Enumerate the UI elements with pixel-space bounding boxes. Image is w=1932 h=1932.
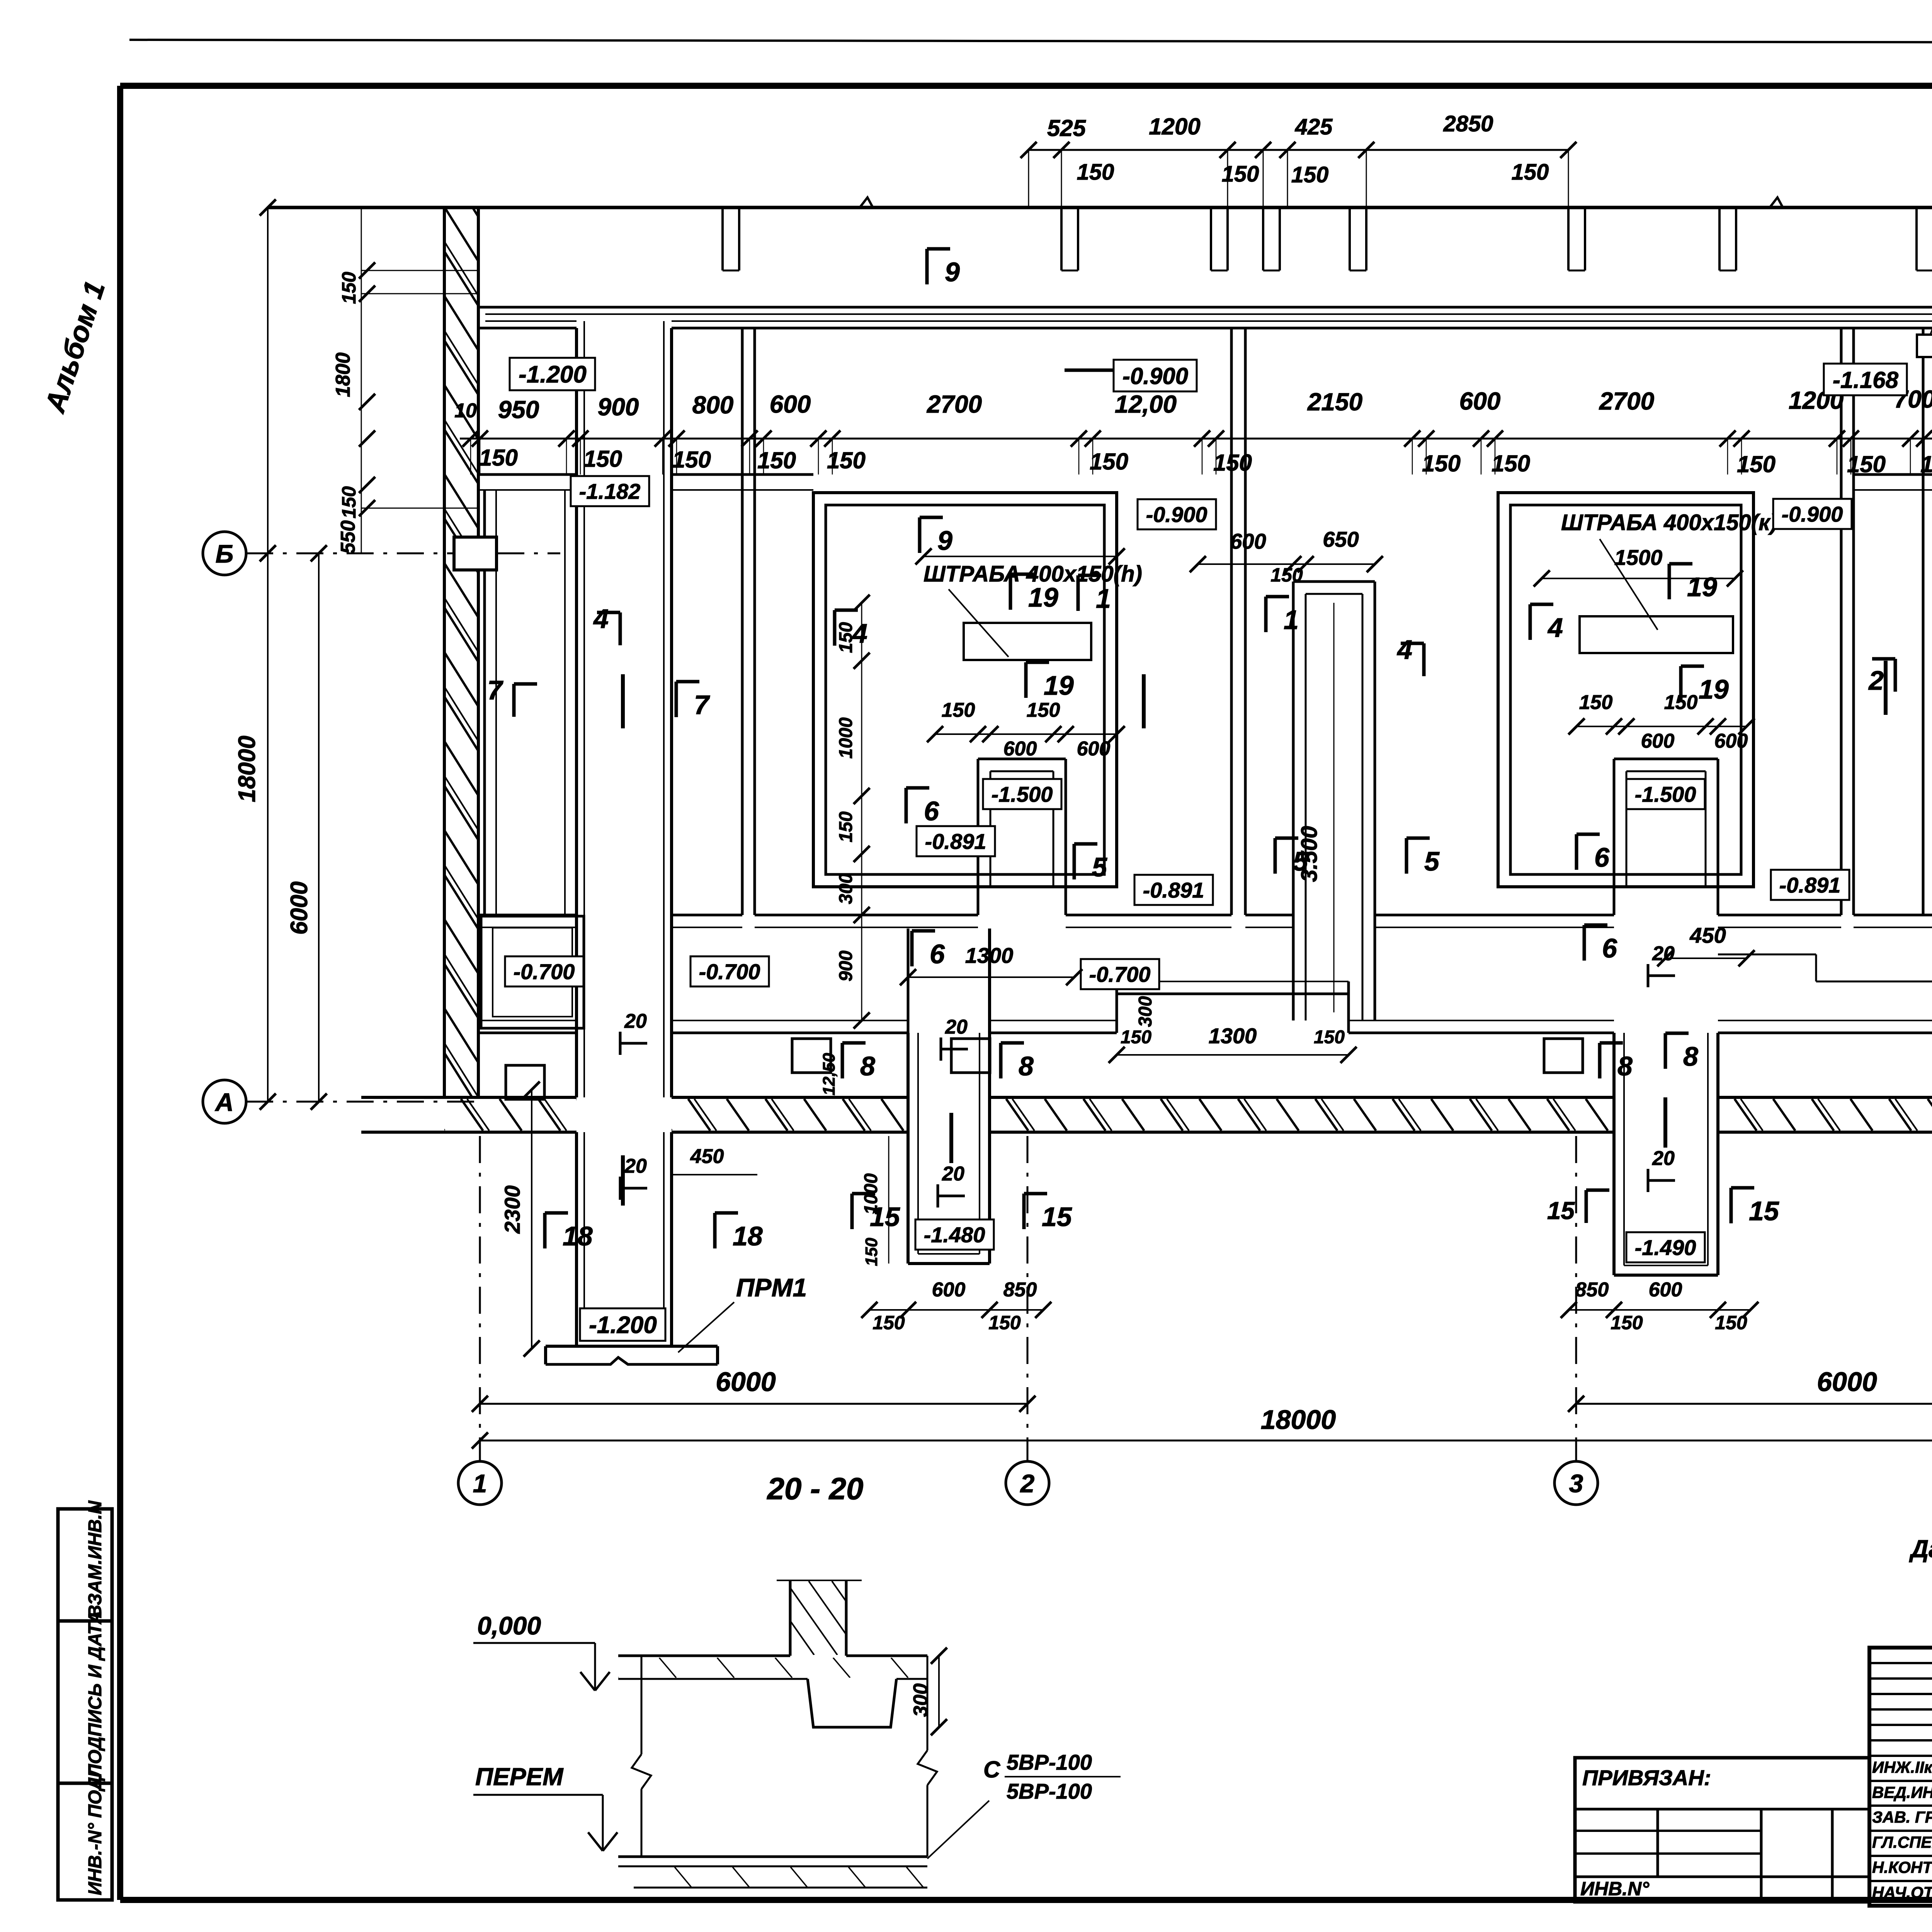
- step right of pit: [1718, 954, 1816, 956]
- svg-text:2300: 2300: [500, 1185, 524, 1234]
- svg-text:150: 150: [1291, 162, 1329, 187]
- svg-text:150: 150: [338, 486, 360, 519]
- svg-text:450: 450: [1689, 923, 1726, 947]
- -1.500 stub channel right: [1613, 759, 1616, 887]
- svg-text:150: 150: [1611, 1312, 1643, 1333]
- svg-text:1500: 1500: [1614, 545, 1663, 570]
- svg-text:150: 150: [836, 622, 856, 653]
- svg-text:2150: 2150: [1307, 388, 1362, 416]
- svg-text:150: 150: [988, 1312, 1021, 1333]
- svg-text:300: 300: [836, 873, 856, 904]
- svg-text:5ВР-100: 5ВР-100: [1007, 1750, 1092, 1774]
- svg-text:20: 20: [942, 1163, 964, 1185]
- svg-text:15: 15: [1547, 1197, 1575, 1225]
- dim 2300: [531, 1090, 532, 1349]
- signature rows: [1869, 1755, 1932, 1757]
- svg-text:2: 2: [1020, 1469, 1035, 1498]
- svg-text:ПРМ1: ПРМ1: [736, 1273, 807, 1302]
- svg-text:6000: 6000: [1817, 1367, 1877, 1397]
- svg-text:150: 150: [1027, 699, 1060, 721]
- vertical dim chain below floor left: [888, 1136, 889, 1264]
- dim 150/600/600 right box: [1577, 726, 1747, 727]
- reinforcement dashes in lanes: [621, 674, 625, 728]
- left bay vertical channel lines: [483, 490, 486, 916]
- short bold mark near top center: [1065, 369, 1138, 372]
- svg-text:-1.168: -1.168: [1833, 367, 1899, 393]
- svg-text:300: 300: [910, 1684, 932, 1717]
- svg-text:19: 19: [1028, 582, 1058, 612]
- axis 1 line: [479, 1136, 481, 1461]
- axis B stub into wall: [454, 537, 497, 570]
- svg-text:Н.КОНТР: Н.КОНТР: [1872, 1858, 1932, 1876]
- small grid rows: [1869, 1662, 1932, 1664]
- svg-text:19: 19: [1699, 674, 1729, 704]
- svg-text:ГЛ.СПЕЦ: ГЛ.СПЕЦ: [1872, 1833, 1932, 1851]
- svg-text:150: 150: [1270, 564, 1303, 586]
- svg-text:600: 600: [1714, 730, 1748, 752]
- 20 section marks: [620, 1042, 647, 1045]
- svg-text:12,00: 12,00: [1115, 390, 1177, 418]
- left wall hatched: [444, 207, 478, 1097]
- svg-text:150: 150: [1512, 160, 1549, 185]
- svg-text:-0.700: -0.700: [514, 959, 575, 984]
- wall pair p8: [1840, 328, 1843, 915]
- svg-text:9: 9: [937, 526, 952, 556]
- svg-text:450: 450: [690, 1145, 724, 1168]
- svg-text:900: 900: [598, 393, 639, 421]
- svg-text:ИНЖ.IIк: ИНЖ.IIк: [1872, 1758, 1932, 1776]
- svg-text:9: 9: [945, 257, 960, 287]
- svg-text:4: 4: [1547, 612, 1563, 643]
- dim 300: [938, 1656, 940, 1727]
- svg-text:-0.900: -0.900: [1122, 363, 1188, 389]
- svg-text:950: 950: [498, 396, 539, 423]
- svg-text:150: 150: [1121, 1027, 1151, 1048]
- left room box: [813, 493, 1117, 887]
- svg-text:15: 15: [1749, 1196, 1779, 1226]
- svg-text:-0.891: -0.891: [925, 829, 986, 854]
- svg-text:1300: 1300: [965, 943, 1014, 968]
- svg-text:150: 150: [872, 1312, 905, 1333]
- svg-text:ПОДПИСЬ И ДАТА: ПОДПИСЬ И ДАТА: [85, 1611, 105, 1777]
- axis circle 3: [1554, 1461, 1598, 1505]
- svg-text:8: 8: [1019, 1051, 1034, 1081]
- sheet frame (thick): [120, 83, 1932, 89]
- svg-text:600: 600: [1459, 387, 1501, 415]
- svg-text:ИНВ.N°: ИНВ.N°: [1580, 1878, 1650, 1900]
- dim 1500 left: [923, 556, 1117, 557]
- svg-text:А: А: [214, 1088, 234, 1116]
- svg-text:1200: 1200: [1149, 114, 1200, 139]
- dim 600 650 above center: [1198, 563, 1376, 565]
- svg-text:18: 18: [733, 1221, 763, 1251]
- svg-text:-0.891: -0.891: [1779, 873, 1841, 897]
- svg-text:1800: 1800: [332, 352, 354, 397]
- wall pair p9 (drop from top channel): [1922, 328, 1925, 915]
- vertical dim chain left box: [854, 595, 870, 611]
- svg-text:7: 7: [694, 690, 710, 720]
- top dim row 525/1200/425/2850: [1029, 149, 1568, 151]
- top wall openings: [1060, 207, 1063, 270]
- detail key trapezoid: [808, 1679, 896, 1727]
- svg-text:525: 525: [1047, 115, 1087, 141]
- svg-text:ПЕРЕМ: ПЕРЕМ: [475, 1763, 564, 1791]
- svg-text:20: 20: [1652, 1147, 1675, 1170]
- dim 1500 right box: [1542, 578, 1735, 579]
- svg-text:1: 1: [473, 1469, 487, 1498]
- svg-text:4: 4: [593, 604, 609, 634]
- center tall channel: [1292, 582, 1295, 1020]
- post pads: [506, 1065, 544, 1099]
- svg-text:900: 900: [836, 951, 856, 981]
- svg-text:18000: 18000: [1261, 1405, 1336, 1435]
- svg-text:-1.480: -1.480: [924, 1223, 985, 1247]
- svg-text:150: 150: [836, 811, 856, 842]
- svg-text:5ВР-100: 5ВР-100: [1007, 1779, 1092, 1803]
- dim 1300 floor: [1117, 1054, 1349, 1056]
- svg-text:600: 600: [1230, 529, 1266, 553]
- svg-text:-1.500: -1.500: [1635, 782, 1696, 806]
- svg-text:2850: 2850: [1443, 111, 1493, 136]
- bottom channel bottom edge: [478, 1020, 577, 1021]
- svg-text:4: 4: [1396, 634, 1412, 665]
- svg-text:-0.700: -0.700: [1089, 962, 1151, 986]
- dim 6000 axis3-4: [1576, 1403, 1932, 1405]
- svg-text:150: 150: [1077, 160, 1114, 185]
- svg-text:ШТРАБА 400х150(к): ШТРАБА 400х150(к): [1561, 510, 1777, 535]
- svg-text:150: 150: [583, 446, 622, 472]
- svg-text:150: 150: [1314, 1027, 1345, 1048]
- svg-text:6: 6: [1594, 842, 1610, 872]
- svg-text:18000: 18000: [234, 736, 260, 802]
- right room box: [1498, 493, 1753, 887]
- section marks: [925, 249, 929, 284]
- svg-text:150: 150: [672, 447, 711, 473]
- ground line zigzags: [860, 197, 873, 207]
- svg-text:10: 10: [454, 400, 477, 422]
- page thin border top: [129, 40, 1932, 43]
- svg-text:6: 6: [930, 939, 945, 969]
- detail bottom slab: [618, 1855, 927, 1858]
- svg-text:425: 425: [1295, 114, 1333, 139]
- svg-text:550: 550: [337, 520, 359, 554]
- svg-text:20: 20: [945, 1016, 968, 1038]
- axis 2 line: [1027, 1136, 1029, 1461]
- level labels: [510, 358, 595, 390]
- svg-text:20: 20: [624, 1010, 647, 1032]
- svg-text:150: 150: [1715, 1312, 1747, 1333]
- dim 450 right: [1665, 957, 1747, 959]
- svg-text:19: 19: [1687, 572, 1717, 602]
- svg-text:6: 6: [924, 796, 939, 826]
- svg-text:150: 150: [338, 272, 360, 304]
- mid narrowed segment step: [1117, 981, 1349, 982]
- svg-text:-1.200: -1.200: [589, 1312, 657, 1338]
- main dim row across plan: [460, 438, 1932, 440]
- detail slab: [618, 1655, 790, 1657]
- bottom channel top edge: [478, 914, 577, 917]
- axis circle 2: [1006, 1461, 1049, 1505]
- svg-text:С: С: [983, 1757, 1001, 1782]
- label -1.200 pit: [580, 1308, 665, 1341]
- svg-text:600: 600: [932, 1279, 966, 1301]
- svg-text:20 - 20: 20 - 20: [766, 1471, 863, 1506]
- svg-text:ВЗАМ.ИНВ.N: ВЗАМ.ИНВ.N: [85, 1500, 105, 1618]
- title block outer: [1869, 1648, 1932, 1906]
- privyazan block: [1575, 1758, 1869, 1902]
- plan top ground line: [268, 206, 1932, 209]
- svg-text:5: 5: [1293, 846, 1308, 876]
- svg-text:600: 600: [1649, 1279, 1682, 1301]
- svg-text:600: 600: [1641, 730, 1675, 752]
- svg-text:800: 800: [692, 391, 734, 419]
- svg-text:-0.900: -0.900: [1782, 502, 1843, 526]
- svg-text:650: 650: [1323, 527, 1359, 551]
- dim 18000: [480, 1440, 1932, 1442]
- pit bottom dims left: [869, 1309, 1043, 1311]
- svg-text:150: 150: [942, 699, 975, 721]
- left vertical dims: [267, 207, 269, 1102]
- axis circle 1: [458, 1461, 502, 1505]
- detail vertical edges w/ break: [641, 1656, 643, 1754]
- second channel run left: [478, 473, 577, 476]
- svg-text:-1.500: -1.500: [992, 782, 1053, 806]
- svg-text:2: 2: [1868, 665, 1884, 696]
- svg-text:-1.182: -1.182: [579, 479, 641, 503]
- dim 150/600/600 left box: [935, 733, 1117, 735]
- wall pair p1: [741, 328, 744, 915]
- svg-text:НАЧ.ОТД.: НАЧ.ОТД.: [1872, 1883, 1932, 1901]
- svg-text:150: 150: [1579, 691, 1613, 714]
- svg-text:ВЕД.ИНЖ: ВЕД.ИНЖ: [1872, 1783, 1932, 1801]
- right second run: [1854, 473, 1932, 476]
- svg-text:20: 20: [624, 1155, 647, 1177]
- svg-text:-1.490: -1.490: [1635, 1235, 1696, 1260]
- PRM1 footing: [546, 1345, 718, 1348]
- svg-text:5: 5: [1424, 846, 1440, 876]
- svg-text:150: 150: [1422, 451, 1461, 476]
- svg-text:-0.700: -0.700: [699, 959, 760, 984]
- axis A: [203, 1080, 246, 1123]
- svg-text:3: 3: [1569, 1469, 1583, 1498]
- svg-text:6000: 6000: [286, 881, 313, 935]
- svg-text:18: 18: [563, 1221, 593, 1251]
- svg-text:2700: 2700: [1599, 387, 1654, 415]
- svg-text:6: 6: [1602, 933, 1617, 963]
- svg-text:150: 150: [1492, 451, 1530, 476]
- axis B: [203, 532, 246, 575]
- svg-text:-0.891: -0.891: [1143, 878, 1204, 902]
- svg-text:600: 600: [1003, 738, 1037, 760]
- svg-text:Б: Б: [216, 539, 234, 568]
- svg-text:150: 150: [862, 1238, 881, 1266]
- svg-text:1000: 1000: [836, 717, 856, 759]
- svg-text:ИНВ.-N° ПОДЛ: ИНВ.-N° ПОДЛ: [85, 1764, 105, 1895]
- svg-text:0,000: 0,000: [477, 1611, 541, 1640]
- svg-text:150: 150: [479, 445, 518, 471]
- bottom floor band hatched: [361, 1096, 577, 1099]
- svg-text:ЗАВ. ГР.: ЗАВ. ГР.: [1872, 1808, 1932, 1826]
- pit bottom dims right: [1569, 1309, 1750, 1311]
- svg-text:5: 5: [1092, 852, 1107, 882]
- svg-text:8: 8: [1683, 1041, 1698, 1071]
- -0.700 C-channel left: [481, 916, 584, 1028]
- svg-text:8: 8: [1617, 1051, 1633, 1081]
- svg-text:150: 150: [1090, 449, 1128, 474]
- svg-text:12,50: 12,50: [820, 1053, 838, 1095]
- svg-text:1300: 1300: [1209, 1024, 1257, 1048]
- svg-text:1000: 1000: [861, 1173, 881, 1214]
- shtraba bar left: [964, 623, 1091, 660]
- svg-text:1: 1: [1284, 605, 1299, 635]
- svg-text:150: 150: [1737, 451, 1776, 477]
- lane A pit below floor: [575, 1132, 578, 1346]
- svg-text:Данный лист см. совместно: Данный лист см. совместно с листами 12,1…: [1909, 1535, 1932, 1563]
- svg-text:150: 150: [1664, 691, 1698, 714]
- dim 6000 axis1-2: [480, 1403, 1027, 1405]
- svg-text:300: 300: [1135, 996, 1156, 1027]
- svg-text:850: 850: [1575, 1279, 1609, 1301]
- -1.500 stub channel left: [977, 759, 980, 887]
- svg-text:-1.200: -1.200: [519, 361, 587, 388]
- svg-text:850: 850: [1003, 1279, 1037, 1301]
- svg-text:6000: 6000: [716, 1367, 776, 1397]
- svg-text:600: 600: [1077, 738, 1111, 760]
- svg-text:19: 19: [1044, 670, 1074, 701]
- shtraba bar right: [1580, 616, 1733, 653]
- left vertical stamp block: [58, 1509, 112, 1900]
- svg-text:-0.900: -0.900: [1146, 502, 1207, 527]
- svg-text:2700: 2700: [927, 390, 982, 418]
- top channel run: [478, 306, 1932, 309]
- axis 3 line: [1575, 1136, 1577, 1461]
- svg-text:7: 7: [487, 675, 503, 705]
- svg-text:600: 600: [770, 390, 811, 418]
- svg-text:15: 15: [1042, 1202, 1072, 1232]
- wall pair p4: [1230, 328, 1233, 915]
- detail wall stub: [789, 1580, 792, 1656]
- channel drop right (-1.168): [1917, 335, 1932, 357]
- svg-text:ПРИВЯЗАН:: ПРИВЯЗАН:: [1582, 1765, 1711, 1790]
- left pit -1.490: [907, 929, 910, 1033]
- svg-text:1: 1: [1096, 583, 1111, 614]
- dim 1300 left: [908, 976, 1074, 978]
- lane A (PRM1 channel): [575, 328, 578, 1097]
- right pit -1.490: [1612, 1033, 1616, 1275]
- svg-text:8: 8: [860, 1051, 875, 1081]
